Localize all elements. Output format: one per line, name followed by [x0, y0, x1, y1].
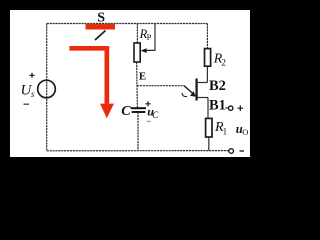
label uC with polarity [145, 101, 159, 121]
svg-text:C: C [121, 104, 131, 119]
label uO [236, 122, 249, 137]
wire: RP top lead [136, 24, 138, 44]
svg-text:O: O [242, 127, 248, 137]
wire: top rail from top-left corner to R2 corner [47, 23, 208, 25]
resistor R2 [205, 49, 226, 68]
potentiometer RP [134, 27, 152, 62]
svg-text:B1: B1 [209, 98, 226, 114]
svg-text:B2: B2 [209, 78, 226, 94]
wire: R2 branch from top rail corner down [206, 24, 208, 49]
svg-text:E: E [139, 71, 146, 83]
wire: capacitor bottom to bottom rail [137, 112, 139, 151]
svg-text:C: C [152, 110, 159, 120]
label B1 [209, 98, 226, 114]
wire: RP bottom to node E and capacitor [136, 62, 139, 108]
red current-path arrow [69, 46, 114, 118]
wire: RP wiper connection to top rail [141, 24, 155, 53]
svg-text:2: 2 [221, 58, 226, 68]
label B2 [209, 78, 226, 94]
resistor R1 [206, 118, 228, 137]
switch S [95, 11, 106, 41]
capacitor C [121, 104, 146, 119]
wire: B1 lead down to R1 and output [207, 98, 209, 119]
red highlight bar over switch S [86, 24, 116, 30]
wire: R1 bottom to bottom rail [208, 137, 210, 150]
voltage source US [21, 73, 56, 104]
wire: B1 node to + output terminal [225, 107, 228, 109]
svg-text:1: 1 [223, 127, 228, 137]
output terminal - [229, 149, 244, 154]
svg-text:P: P [147, 32, 152, 42]
wire: R2 bottom to B2 lead [206, 66, 208, 82]
svg-text:s: s [31, 89, 35, 99]
svg-text:S: S [97, 11, 105, 26]
wire: left vertical wire [46, 24, 48, 151]
output terminal + [229, 105, 244, 111]
UJT transistor (emitter arrow, bar, base leads) [182, 79, 208, 101]
wire: bottom rail [47, 150, 229, 152]
wire: emitter wire from node E to UJT [137, 85, 184, 87]
node E label [139, 71, 146, 83]
